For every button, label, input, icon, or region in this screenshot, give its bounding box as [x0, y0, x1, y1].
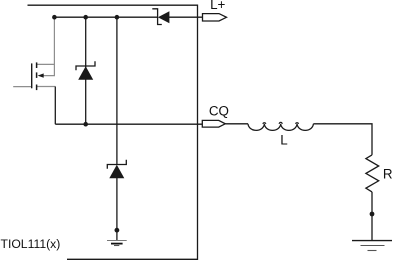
ground GND1 (internal)	[107, 241, 127, 246]
wire source vertical	[54, 87, 56, 125]
wire inductor to resistor	[313, 124, 372, 155]
terminal L+ pad	[203, 14, 227, 21]
wire drain vertical (gray)	[53, 17, 55, 64]
zener D2	[107, 160, 126, 179]
inductor cusp curls	[263, 122, 299, 124]
node junction dot 1	[52, 15, 57, 20]
svg-text:L: L	[280, 133, 287, 148]
zener D1	[76, 61, 95, 80]
wire zener D2 to ground	[116, 178, 118, 241]
body arrow	[38, 73, 44, 77]
transistor Q1 MOSFET (internal, gray leads)	[13, 62, 55, 124]
terminal CQ pad	[202, 120, 225, 127]
IC box TIOL111(x) outline	[28, 5, 198, 259]
node junction dot 6	[370, 212, 375, 217]
wire CQ pad to inductor	[225, 123, 248, 125]
inductor L	[248, 124, 313, 131]
wire zener D1 branch vertical	[85, 17, 87, 124]
wire gate lead	[13, 86, 32, 88]
wire top rail (internal VCC rail to diode)	[54, 16, 157, 18]
channel bars	[36, 62, 38, 68]
svg-text:TIOL111(x): TIOL111(x)	[1, 237, 61, 251]
svg-text:R: R	[383, 166, 393, 181]
svg-text:L+: L+	[210, 0, 225, 12]
wire clamp branch vertical (top rail through CQ rail to zener D2)	[116, 17, 118, 164]
wire resistor to ground	[371, 192, 373, 241]
node junction dot 5	[115, 228, 120, 233]
wire source stub	[37, 86, 55, 88]
wire drain stub	[37, 64, 54, 75]
node junction dot 4	[83, 122, 88, 127]
wire diode anode to L+ pad	[169, 16, 203, 18]
diode D (reverse polarity, pointing left)	[152, 9, 169, 25]
resistor R	[366, 155, 379, 192]
gate bar	[31, 63, 33, 88]
wire CQ rail	[55, 123, 202, 125]
node junction dot 2	[83, 15, 88, 20]
ground GND2 (external)	[352, 241, 392, 251]
node junction dot 3	[115, 15, 120, 20]
svg-text:CQ: CQ	[209, 103, 229, 118]
